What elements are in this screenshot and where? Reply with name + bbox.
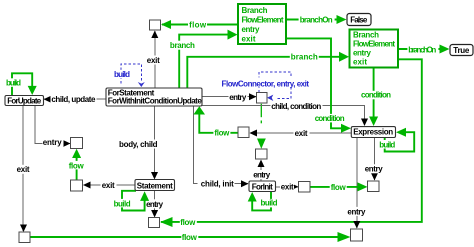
svg-text:Branch: Branch [242,6,268,15]
svg-text:exit: exit [295,129,308,138]
svg-text:entry: entry [353,49,372,58]
wire body, child: ForStatement to Statement [118,106,159,180]
svg-text:Statement: Statement [137,181,173,190]
wire exit: Statement to square EXIT3 [83,181,135,190]
svg-text:FlowConnector, entry, exit: FlowConnector, entry, exit [222,80,310,89]
node False [347,14,371,26]
wire build loop: ForInit [248,192,279,211]
svg-text:body, child: body, child [119,140,158,149]
node square EXIT3 [71,180,83,191]
svg-text:build: build [6,79,21,88]
wire entry: ForStatement to flow-connector square [202,93,257,103]
node ForStatement / ForWithInitConditionUpdate [106,88,202,106]
wire child, condition: ForStatement to Expression [202,102,368,127]
svg-text:flow: flow [180,218,196,227]
svg-text:branchOn: branchOn [408,45,436,54]
wire condition: Branch1 to Expression (left side) [286,38,351,132]
svg-text:exit: exit [147,56,160,65]
wire flow: bottom-left square to bottom square ENTRY9 [30,232,351,242]
wire branchOn: Branch2 to True [398,45,450,55]
wire flow: square EXIT7 to square ENTRY8 [311,182,368,192]
svg-text:entry: entry [229,93,247,102]
wire entry: ForInit to square ENTRY6 [253,160,272,182]
svg-text:entry: entry [242,25,261,34]
wire entry: Expression to square ENTRY8 [364,138,384,181]
node square ENTRY8 [368,181,380,192]
node square EXIT10 (bottom-left) [19,232,30,243]
node ForUpdate [5,96,44,106]
wire blue loop: FlowConnector, entry, exit [221,72,311,101]
svg-text:entry: entry [365,165,384,174]
svg-text:exit: exit [281,183,294,192]
wire green: flow-connector square down to square ENTRY6 [257,104,266,149]
svg-text:child, condition: child, condition [271,102,321,111]
svg-text:Branch: Branch [353,31,379,40]
svg-text:build: build [114,199,131,208]
wire branch: ForStatement to Branch2 [187,52,349,88]
wire child, update: ForStatement to ForUpdate [44,95,107,105]
wire exit: ForUpdate to bottom-left square [16,106,31,233]
svg-text:child, update: child, update [51,95,96,104]
node Branch FlowElement 2 [350,30,399,68]
svg-text:condition: condition [361,91,391,100]
wire entry: Statement to square ENTRY4 [145,191,164,218]
svg-text:exit: exit [353,58,367,67]
wire flow: Branch1 to square EXIT1 [161,20,238,30]
svg-text:entry: entry [146,200,164,209]
svg-text:build: build [379,140,395,149]
wire flow: square EXIT3 to square ENTRY2 [68,149,85,180]
svg-text:True: True [453,46,470,55]
svg-text:flow: flow [182,233,198,242]
svg-text:flow: flow [331,183,347,192]
svg-text:exit: exit [242,35,256,44]
wire blue build loop: ForStatement [113,64,145,87]
svg-text:ForUpdate: ForUpdate [7,97,42,106]
node square ENTRY6 [256,149,268,159]
node square ENTRY2 [71,138,83,149]
node square EXIT5 [238,127,249,138]
wire entry: ForUpdate to square ENTRY2 [35,106,71,148]
svg-text:ForWithInitConditionUpdate: ForWithInitConditionUpdate [108,96,203,105]
wire exit: ForStatement to square EXIT1 [146,31,161,89]
wire exit: ForInit to square EXIT7 [276,182,299,191]
svg-text:exit: exit [17,165,30,174]
wire build loop: Expression [379,128,414,152]
wire condition: Branch2 to Expression (top) [360,68,392,127]
svg-text:branch: branch [170,41,195,50]
node Branch FlowElement 1 [238,4,286,44]
svg-text:branchOn: branchOn [300,16,333,25]
node square flow-connector [257,93,268,104]
node square ENTRY4 [149,218,160,228]
wire build loop: Statement [113,191,150,211]
node ForInit [249,181,276,192]
node Expression [351,127,395,138]
svg-text:flow: flow [69,161,85,170]
svg-text:exit: exit [102,181,115,190]
svg-text:child, init: child, init [201,180,234,189]
svg-text:entry: entry [253,170,271,179]
wire entry: Expression to bottom square ENTRY9 [347,138,366,229]
svg-text:build: build [114,70,130,79]
svg-text:entry: entry [43,138,63,147]
svg-text:branch: branch [291,52,318,61]
svg-text:FlowElement: FlowElement [353,40,395,49]
svg-text:flow: flow [189,21,207,30]
wire exit: Expression to square EXIT5 [250,129,352,138]
wire branch: ForStatement to Branch1 [169,30,238,88]
node square EXIT1 (top) [150,20,161,30]
svg-text:ForInit: ForInit [252,182,273,191]
svg-text:False: False [350,16,368,25]
svg-text:Expression: Expression [353,128,393,137]
svg-text:flow: flow [214,129,230,138]
node square EXIT7 [299,182,311,193]
svg-text:entry: entry [347,207,366,216]
wire entry arrowhead into bottom square ENTRY9 [353,221,360,229]
svg-text:FlowElement: FlowElement [242,16,284,25]
wire branchOn: Branch1 to False [286,15,347,25]
node square ENTRY9 (bottom) [351,229,363,241]
svg-text:condition: condition [315,114,345,123]
wire flow: square EXIT5 to ForStatement bottom [194,106,238,137]
wire child, init: ForStatement to ForInit [193,106,248,189]
svg-text:build: build [261,199,278,208]
node Statement [135,180,175,191]
node True [450,45,473,56]
wire build loop: ForUpdate [5,73,37,95]
wire flow: Branch2 right side to square ENTRY4 [160,59,422,227]
